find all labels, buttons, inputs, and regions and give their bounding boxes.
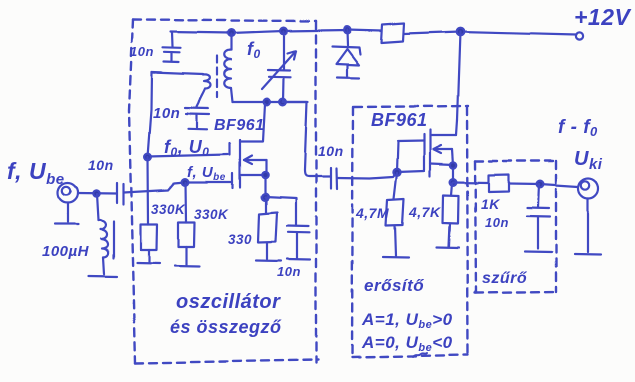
wire input to series cap [78, 192, 117, 195]
svg-text:BF961: BF961 [214, 117, 265, 134]
capacitor 10n (source bypass) [287, 226, 309, 258]
wire Q2 output to filter [453, 181, 488, 184]
capacitor 10n filter [527, 184, 550, 249]
capacitor 10n series input [117, 183, 124, 204]
resistor 4,7K [443, 183, 459, 246]
wire coupling cap to amp gate node [337, 173, 397, 179]
wire +12V drop to Q2 drain [457, 32, 460, 120]
svg-text:10n: 10n [88, 157, 114, 173]
svg-text:100µH: 100µH [42, 243, 90, 260]
dashed box oscillator "oszcillátor és összegző" [129, 20, 318, 363]
resistor 330K #1 [141, 224, 158, 262]
wire gate1 node to 330K #2 [184, 183, 187, 223]
ground 4,7K [437, 246, 459, 249]
node rail-C zener tap [344, 27, 351, 34]
wire tank bottom [233, 101, 309, 103]
svg-text:f, Ube: f, Ube [7, 158, 65, 188]
node input [93, 190, 99, 196]
node Q2 gate [393, 169, 400, 176]
svg-text:10n: 10n [277, 264, 301, 279]
node rail-B [281, 28, 288, 35]
svg-text:oszcillátor: oszcillátor [176, 291, 281, 313]
ground cap 10n secondary [188, 128, 207, 131]
svg-text:4,7M: 4,7M [355, 205, 389, 221]
dashed box amplifier "erősítő" [352, 106, 468, 357]
ground output connector [575, 253, 601, 256]
capacitor 10n (top-left bypass) [163, 33, 181, 62]
svg-text:f - f0: f - f0 [558, 117, 598, 139]
zener diode D1 [332, 30, 360, 76]
wire tank-out to coupling cap [283, 102, 330, 177]
stray pen squiggle [413, 353, 427, 357]
svg-text:A=0, Ube<0: A=0, Ube<0 [361, 333, 453, 354]
transformer secondary winding [152, 73, 211, 108]
resistor 330K #2 [179, 222, 195, 265]
ground 100µH [89, 275, 117, 278]
resistor 330 [258, 197, 277, 259]
svg-text:330K: 330K [194, 207, 229, 222]
variable capacitor CV [262, 32, 296, 103]
wire gate2 from node f0,U0 [148, 155, 228, 157]
svg-text:+12V: +12V [574, 4, 632, 30]
transistor Q1 BF961 mixer [230, 104, 266, 197]
capacitor 10n (secondary coupling) [185, 108, 209, 128]
ground filter cap [525, 251, 552, 254]
svg-text:A=1, Ube>0: A=1, Ube>0 [361, 310, 453, 331]
svg-text:szűrő: szűrő [482, 270, 528, 287]
ground 4,7M [383, 256, 409, 259]
node Q2 substrate-source [450, 162, 456, 168]
svg-text:10n: 10n [318, 143, 344, 159]
ground cap 10n source [287, 258, 310, 261]
node f0,U0 [144, 154, 151, 161]
svg-text:4,7K: 4,7K [408, 204, 441, 220]
resistor (box) in supply rail [381, 24, 404, 44]
svg-text:330K: 330K [151, 202, 186, 217]
svg-text:BF961: BF961 [371, 110, 428, 130]
svg-text:f0: f0 [247, 39, 261, 61]
svg-text:erősítő: erősítő [364, 276, 424, 295]
+12V terminal [576, 33, 583, 40]
svg-text:1K: 1K [481, 196, 500, 212]
resistor 1K (box) [489, 175, 509, 192]
svg-text:10n: 10n [130, 44, 154, 59]
node tank-drain [264, 99, 271, 106]
ground cap 10n top-left [164, 61, 179, 64]
resistor 4,7M [386, 173, 404, 256]
ground zener [337, 76, 359, 79]
wire 1K to output connector [509, 184, 579, 187]
node Q2 output [450, 179, 457, 186]
node tank-out [280, 99, 287, 106]
transformer primary winding L1 f0 [224, 34, 232, 102]
wire series cap to gate1 node [124, 182, 186, 193]
node filter [537, 181, 544, 188]
wire gate1 from input node [185, 181, 231, 183]
ground resistor 330 [256, 259, 281, 262]
svg-text:és összegző: és összegző [170, 317, 282, 337]
ground input connector [55, 223, 78, 225]
svg-text:f0, U0: f0, U0 [164, 137, 209, 159]
svg-text:Uki: Uki [574, 148, 603, 173]
svg-text:10n: 10n [485, 215, 509, 230]
node rail-A [228, 30, 235, 37]
dashed box filter "szűrő" [475, 161, 557, 293]
wire top supply rail [171, 30, 381, 33]
node Q1 source-substrate [262, 172, 268, 178]
wire f0,U0 node to resistor 330K #1 [146, 157, 149, 224]
wire Q1 source to RC [265, 197, 296, 226]
output connector Uki [579, 178, 599, 252]
node gate1 bias [182, 179, 189, 186]
transformer core [216, 56, 218, 97]
svg-text:330: 330 [228, 232, 252, 247]
wire secondary to node f0,U0 [148, 73, 152, 158]
capacitor 10n coupling [331, 168, 337, 189]
wire rail right of box resistor to +12V terminal [404, 32, 577, 35]
node Q1 source [262, 194, 269, 201]
ground 330K #2 [175, 265, 199, 268]
input connector f,Ube [58, 183, 78, 223]
inductor 100µH [97, 194, 114, 274]
svg-text:10n: 10n [153, 105, 180, 122]
ground 330K #1 [137, 262, 160, 265]
node rail-D supply drop [456, 28, 464, 36]
transistor Q2 BF961 amplifier [397, 120, 457, 182]
svg-text:f, Ube: f, Ube [187, 164, 226, 183]
